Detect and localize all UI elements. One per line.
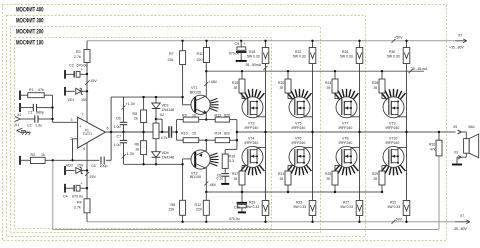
- svg-text:39: 39: [327, 86, 331, 90]
- svg-text:IRFP240: IRFP240: [292, 141, 306, 145]
- svg-text:IRFP240: IRFP240: [339, 141, 353, 145]
- svg-text:220: 220: [196, 208, 202, 212]
- svg-text:4: 4: [83, 147, 85, 151]
- svg-text:7: 7: [82, 113, 84, 117]
- svg-text:R25: R25: [325, 172, 331, 176]
- svg-text:C9: C9: [235, 42, 240, 46]
- svg-text:IRFP240: IRFP240: [386, 141, 400, 145]
- svg-text:VD3: VD3: [162, 104, 169, 108]
- svg-text:4.7k: 4.7k: [161, 136, 168, 140]
- svg-text:+50V: +50V: [394, 35, 403, 39]
- svg-text:C7: C7: [117, 135, 122, 139]
- svg-text:R28: R28: [372, 81, 378, 85]
- svg-text:39: 39: [234, 177, 238, 181]
- svg-text:R8: R8: [171, 203, 176, 207]
- svg-text:820: 820: [224, 114, 230, 118]
- svg-text:R29: R29: [372, 172, 378, 176]
- svg-text:5W 0.33: 5W 0.33: [293, 54, 306, 58]
- svg-text:820: 820: [224, 131, 230, 135]
- svg-text:R15: R15: [232, 81, 238, 85]
- svg-text:C4: C4: [63, 195, 68, 199]
- svg-text:220: 220: [197, 58, 203, 62]
- svg-text:+35...80V: +35...80V: [449, 46, 464, 50]
- svg-text:R11: R11: [197, 52, 203, 56]
- svg-text:5W 0.33: 5W 0.33: [387, 54, 400, 58]
- svg-text:C5: C5: [91, 164, 96, 168]
- svg-text:R31: R31: [390, 201, 396, 205]
- svg-text:R24: R24: [325, 81, 331, 85]
- svg-text:R16: R16: [229, 155, 236, 159]
- svg-text:R27: R27: [343, 201, 349, 205]
- svg-text:IRFP240: IRFP240: [292, 126, 306, 130]
- svg-text:+48V: +48V: [209, 80, 218, 84]
- svg-text:35...45 mA: 35...45 mA: [411, 67, 428, 71]
- svg-text:5W 0.33: 5W 0.33: [247, 54, 260, 58]
- svg-text:-35...80V: -35...80V: [453, 227, 467, 231]
- svg-text:VD1: VD1: [68, 98, 75, 102]
- svg-text:1N4148: 1N4148: [162, 108, 175, 112]
- svg-text:X7: X7: [460, 214, 464, 218]
- svg-text:X5: X5: [453, 125, 457, 129]
- svg-text:5W 0.33: 5W 0.33: [247, 205, 260, 209]
- svg-text:0.1u: 0.1u: [217, 177, 224, 181]
- svg-text:R32: R32: [429, 143, 435, 147]
- svg-text:R19: R19: [249, 201, 255, 205]
- svg-text:39: 39: [327, 177, 331, 181]
- svg-text:+: +: [81, 68, 83, 72]
- svg-text:2k: 2k: [136, 148, 140, 152]
- svg-text:1.0u: 1.0u: [35, 124, 42, 128]
- svg-text:VT8: VT8: [342, 137, 348, 141]
- svg-text:X7: X7: [458, 34, 462, 38]
- svg-text:670.0u: 670.0u: [229, 51, 239, 55]
- svg-text:670.0u: 670.0u: [72, 195, 83, 199]
- svg-text:VT1: VT1: [191, 86, 198, 90]
- svg-text:TL071: TL071: [83, 132, 93, 136]
- svg-text:10: 10: [192, 114, 196, 118]
- svg-text:3: 3: [71, 118, 73, 122]
- svg-text:1k: 1k: [41, 153, 45, 157]
- svg-text:R18: R18: [249, 50, 255, 54]
- svg-text:R20: R20: [278, 81, 284, 85]
- svg-text:+15V: +15V: [88, 79, 97, 83]
- svg-text:R17: R17: [232, 172, 238, 176]
- svg-text:BA1: BA1: [469, 125, 476, 129]
- svg-text:IRFP240: IRFP240: [386, 126, 400, 130]
- svg-text:100p: 100p: [100, 164, 108, 168]
- svg-text:X3: X3: [454, 151, 458, 155]
- svg-text:X1: X1: [15, 123, 19, 127]
- svg-text:35...50mA: 35...50mA: [246, 63, 262, 67]
- svg-text:R2: R2: [31, 153, 36, 157]
- svg-text:R22: R22: [295, 50, 301, 54]
- svg-text:15V: 15V: [77, 164, 84, 168]
- svg-text:R13: R13: [215, 114, 222, 118]
- svg-text:R21: R21: [278, 172, 284, 176]
- svg-text:39: 39: [374, 86, 378, 90]
- svg-text:1.0u: 1.0u: [114, 125, 121, 129]
- svg-text:5W 0.33: 5W 0.33: [388, 205, 401, 209]
- svg-text:МОСФИТ 100: МОСФИТ 100: [16, 39, 44, 46]
- svg-text:680p: 680p: [36, 111, 44, 115]
- svg-text:VT6: VT6: [295, 137, 301, 141]
- svg-text:39: 39: [374, 177, 378, 181]
- svg-text:15V: 15V: [81, 98, 88, 102]
- svg-text:IRFP240: IRFP240: [245, 126, 259, 130]
- svg-text:VD2: VD2: [66, 164, 73, 168]
- svg-text:R1: R1: [29, 88, 34, 92]
- svg-text:C2: C2: [27, 124, 32, 128]
- svg-text:-1.3V: -1.3V: [126, 152, 135, 156]
- svg-text:2.7k: 2.7k: [74, 55, 81, 59]
- svg-text:R23: R23: [296, 201, 302, 205]
- svg-text:-50V: -50V: [395, 217, 403, 221]
- svg-text:-15V: -15V: [88, 175, 96, 179]
- svg-text:2k: 2k: [134, 116, 138, 120]
- svg-text:R30: R30: [389, 50, 395, 54]
- svg-text:C10: C10: [234, 205, 240, 209]
- svg-text:IRFP240: IRFP240: [245, 141, 259, 145]
- svg-text:670.0u: 670.0u: [229, 217, 239, 221]
- svg-text:BD139: BD139: [190, 91, 201, 95]
- svg-text:МОСФИТ 400: МОСФИТ 400: [16, 6, 44, 13]
- svg-text:МОСФИТ 200: МОСФИТ 200: [16, 28, 44, 35]
- svg-text:22k: 22k: [168, 58, 174, 62]
- svg-text:39: 39: [280, 177, 284, 181]
- svg-text:22k: 22k: [169, 208, 175, 212]
- svg-text:МОСФИТ 300: МОСФИТ 300: [16, 17, 44, 24]
- svg-text:39: 39: [234, 86, 238, 90]
- svg-text:X2: X2: [160, 113, 164, 117]
- svg-text:5W 0.33: 5W 0.33: [294, 205, 307, 209]
- svg-text:C6: C6: [116, 117, 121, 121]
- svg-text:BD140: BD140: [190, 175, 201, 179]
- svg-text:-48V: -48V: [208, 183, 216, 187]
- svg-text:R4: R4: [77, 201, 82, 205]
- svg-text:R12: R12: [195, 203, 202, 207]
- svg-text:10: 10: [192, 131, 196, 135]
- svg-text:R7: R7: [169, 52, 174, 56]
- svg-text:1N4148: 1N4148: [162, 156, 175, 160]
- svg-text:R3: R3: [76, 50, 81, 54]
- svg-text:+: +: [81, 182, 83, 186]
- svg-text:C1: C1: [28, 111, 33, 115]
- svg-text:5W 0.33: 5W 0.33: [340, 54, 353, 58]
- svg-text:39: 39: [280, 86, 284, 90]
- svg-text:C3: C3: [69, 63, 74, 67]
- svg-text:R10: R10: [181, 131, 188, 135]
- svg-text:1.0u: 1.0u: [114, 143, 121, 147]
- svg-text:3.3: 3.3: [229, 159, 234, 163]
- svg-text:47k: 47k: [430, 148, 436, 152]
- svg-text:R9: R9: [182, 114, 187, 118]
- svg-text:47k: 47k: [38, 88, 44, 92]
- svg-text:+1.3V: +1.3V: [126, 102, 136, 106]
- svg-text:IRFP240: IRFP240: [339, 126, 353, 130]
- svg-text:2.7k: 2.7k: [74, 206, 81, 210]
- svg-text:VT10: VT10: [389, 137, 397, 141]
- svg-text:R26: R26: [342, 50, 348, 54]
- svg-text:X2: X2: [17, 113, 21, 117]
- svg-text:6: 6: [107, 127, 109, 131]
- svg-text:VT4: VT4: [248, 137, 254, 141]
- svg-text:R14: R14: [215, 131, 222, 135]
- svg-text:5W 0.33: 5W 0.33: [341, 205, 354, 209]
- svg-text:R6: R6: [135, 143, 140, 147]
